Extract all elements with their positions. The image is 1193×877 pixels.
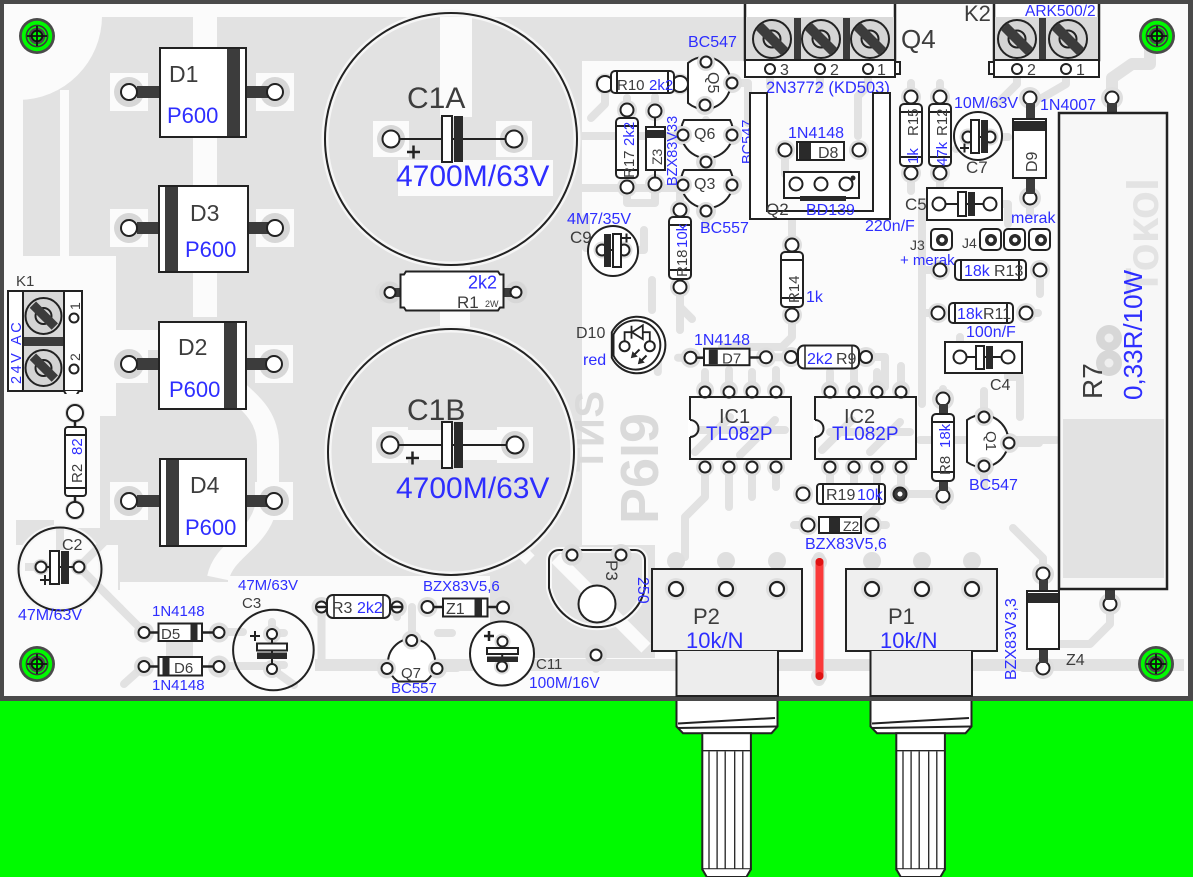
potentiometer P1 shaft <box>871 651 973 877</box>
white region right of C1A <box>440 17 472 122</box>
wire trace D5 D6 right <box>272 633 452 665</box>
copper band top middle <box>582 17 748 61</box>
capacitor C3 <box>233 577 314 690</box>
mounting hole top-left <box>19 18 55 54</box>
white region R3 Z1 row <box>228 576 490 656</box>
wire trace R15 R12 tops <box>911 83 940 97</box>
svg-text:R10: R10 <box>617 77 645 94</box>
svg-text:Q1: Q1 <box>982 431 999 451</box>
wire trace IC2 pins up <box>830 366 901 390</box>
potentiometer P2 shaft <box>677 651 779 877</box>
wire trace Q7 area <box>437 664 457 672</box>
wire trace D9 <box>1026 198 1034 214</box>
capacitor C9 <box>567 211 638 276</box>
wire trace R8 <box>939 389 947 506</box>
red jumper wire <box>816 558 824 680</box>
svg-text:R11: R11 <box>983 306 1011 323</box>
resistor R10 <box>597 71 688 94</box>
terminal block K2 <box>964 1 1099 79</box>
diode D3 <box>110 186 294 272</box>
white clearance top-left corner <box>16 16 102 100</box>
wire trace Q1 <box>984 391 1039 486</box>
copper pour left region <box>16 17 582 545</box>
svg-text:BC557: BC557 <box>700 220 749 237</box>
capacitor C1A outline <box>325 13 577 265</box>
svg-text:220n/F: 220n/F <box>865 218 915 235</box>
svg-text:1: 1 <box>67 302 83 310</box>
svg-text:10k/N: 10k/N <box>880 628 937 653</box>
svg-text:Q2: Q2 <box>766 200 789 219</box>
wire trace red jumper underlay <box>813 558 825 680</box>
svg-text:D4: D4 <box>190 472 220 498</box>
diode D7 <box>685 332 773 368</box>
resistor R11 <box>932 303 1033 323</box>
svg-text:BC547: BC547 <box>969 477 1018 494</box>
wire trace R18 <box>680 194 692 319</box>
svg-text:K1: K1 <box>16 273 34 290</box>
white region bottom-left corner <box>6 630 110 696</box>
svg-text:J4: J4 <box>962 235 977 251</box>
diode D2 <box>110 322 293 409</box>
svg-text:BZX83V3,3: BZX83V3,3 <box>1003 598 1020 680</box>
resistor R1 <box>379 272 527 313</box>
capacitor C5 <box>865 188 1002 235</box>
white channel along left below K1 <box>6 400 56 520</box>
transistor Q5 <box>688 53 741 114</box>
svg-text:Z2: Z2 <box>843 518 860 534</box>
wire trace D7 R9 <box>678 357 885 387</box>
resistor R9 <box>785 346 872 369</box>
diode D1 <box>110 48 294 137</box>
resistor R3 <box>315 595 403 618</box>
terminal block Q4 <box>745 2 936 97</box>
zener Z2 <box>802 517 887 553</box>
svg-text:10M/63V: 10M/63V <box>954 95 1018 112</box>
svg-text:BD139: BD139 <box>806 202 855 219</box>
zener Z1 <box>422 578 510 618</box>
svg-text:TL082P: TL082P <box>832 424 899 445</box>
svg-text:2N3772 (KD503): 2N3772 (KD503) <box>766 79 890 97</box>
copper trace network <box>29 50 1150 685</box>
wire trace Q4 to D8 <box>785 96 858 184</box>
diode D5 <box>139 603 225 643</box>
svg-text:Z3: Z3 <box>649 148 665 165</box>
white region around D5 D6 <box>120 582 232 696</box>
svg-text:2k2: 2k2 <box>807 351 833 368</box>
svg-text:BZX83V5,6: BZX83V5,6 <box>805 536 887 553</box>
svg-text:100n/F: 100n/F <box>966 324 1016 341</box>
svg-text:R14: R14 <box>786 275 803 303</box>
wire trace C7 pads <box>956 137 1008 149</box>
heatsink bracket around Q2 <box>750 93 890 219</box>
svg-text:C4: C4 <box>990 377 1011 394</box>
svg-text:P600: P600 <box>185 515 236 540</box>
svg-text:C2: C2 <box>62 537 83 554</box>
diode D4 <box>110 459 293 546</box>
capacitor C1A symbol <box>373 116 532 162</box>
wire trace R17 Z3 tops <box>627 97 655 111</box>
IC U1 IC1 <box>688 387 791 473</box>
svg-text:1N4148: 1N4148 <box>152 603 205 620</box>
wire trace R7 bottom to Z4 <box>1060 604 1110 644</box>
svg-text:47M/63V: 47M/63V <box>18 607 82 624</box>
svg-text:C3: C3 <box>242 595 261 612</box>
svg-text:2: 2 <box>1027 62 1036 79</box>
diode D6 <box>139 657 225 694</box>
zener Z4 <box>1003 568 1085 681</box>
capacitor C4 <box>945 342 1022 394</box>
svg-text:2: 2 <box>830 62 839 79</box>
capacitor C11 <box>470 622 600 693</box>
svg-text:1N4148: 1N4148 <box>694 332 750 349</box>
svg-text:10k: 10k <box>857 487 884 504</box>
svg-text:1k: 1k <box>905 148 922 164</box>
svg-text:P3: P3 <box>602 560 621 581</box>
svg-text:Z1: Z1 <box>446 601 465 618</box>
copper pour P3 zone <box>488 545 655 658</box>
svg-text:10k: 10k <box>674 223 691 248</box>
wire trace Q1 horizontal <box>920 436 1056 444</box>
svg-text:C7: C7 <box>966 158 988 177</box>
svg-text:R8: R8 <box>937 456 954 475</box>
terminal block K1 <box>8 273 83 396</box>
svg-text:2k2: 2k2 <box>468 273 497 293</box>
svg-text:P600: P600 <box>169 377 220 402</box>
wire trace R19 to R8 <box>900 490 938 498</box>
svg-text:R2: R2 <box>69 464 86 483</box>
svg-text:82: 82 <box>69 438 86 455</box>
svg-text:D6: D6 <box>174 660 193 677</box>
wire trace R14 <box>722 217 792 347</box>
svg-text:P2: P2 <box>693 604 720 629</box>
wire trace C1A to Q3 <box>560 184 683 192</box>
svg-text:D9: D9 <box>1024 151 1041 172</box>
capacitor C2 <box>18 528 114 625</box>
IC U2 IC2 <box>813 387 916 473</box>
power resistor R7 <box>1059 92 1168 611</box>
svg-text:1N4148: 1N4148 <box>152 677 205 694</box>
potentiometer P1 <box>846 569 997 653</box>
svg-text:3: 3 <box>780 62 789 79</box>
svg-text:C1A: C1A <box>407 82 465 115</box>
white channel through R1 <box>440 262 470 330</box>
svg-text:2k2: 2k2 <box>357 600 383 617</box>
transistor Q6 <box>674 120 741 171</box>
LED D10 <box>576 317 665 374</box>
jumper pad J3 <box>900 229 955 269</box>
svg-text:BZX83V5,6: BZX83V5,6 <box>423 578 500 595</box>
potentiometer P3 <box>549 545 651 666</box>
svg-text:100M/16V: 100M/16V <box>529 675 600 692</box>
svg-text:Q3: Q3 <box>694 176 715 193</box>
transistor Q1 <box>967 408 1018 494</box>
wire trace D10 <box>650 280 680 372</box>
svg-text:2k2: 2k2 <box>621 122 638 146</box>
svg-text:P1: P1 <box>888 604 915 629</box>
svg-text:R18: R18 <box>674 249 691 277</box>
svg-text:D3: D3 <box>190 200 219 226</box>
wire trace P3 bottom pad <box>592 655 600 669</box>
white region around K1 <box>6 256 116 416</box>
svg-text:R19: R19 <box>826 487 855 504</box>
svg-text:BC557: BC557 <box>391 680 437 697</box>
diode D8 <box>779 125 866 162</box>
mounting hole bottom-right <box>1138 646 1174 682</box>
wire trace through IC2 body <box>822 420 910 452</box>
svg-text:Q6: Q6 <box>694 126 715 143</box>
wire trace Q5 right pad <box>732 83 748 123</box>
svg-text:10k/N: 10k/N <box>686 628 743 653</box>
svg-text:18k: 18k <box>937 423 954 448</box>
svg-text:47k: 47k <box>934 141 951 166</box>
wire trace C2 pads <box>29 522 124 608</box>
svg-text:1N4148: 1N4148 <box>788 125 844 142</box>
resistor R2 <box>54 394 100 528</box>
potentiometer P2 <box>652 569 802 653</box>
svg-text:4700M/63V: 4700M/63V <box>396 472 549 505</box>
wire trace K2 stubs <box>997 74 1066 104</box>
wire trace bottom right <box>1023 664 1043 672</box>
copper band bottom horizontal trace <box>315 659 1184 671</box>
svg-text:24V AC: 24V AC <box>9 320 25 384</box>
wire trace IC2 pins down <box>830 467 901 522</box>
svg-text:merak: merak <box>1011 210 1056 227</box>
wire trace R7 top pad <box>1112 50 1150 98</box>
svg-text:ARK500/2: ARK500/2 <box>1025 3 1096 20</box>
svg-text:R1: R1 <box>457 293 479 312</box>
pad halos (copper annulus under pads) <box>33 52 1123 684</box>
svg-text:2W: 2W <box>485 299 499 309</box>
wire trace C4 <box>960 337 1020 417</box>
board border frame <box>0 0 1193 701</box>
svg-text:4M7/35V: 4M7/35V <box>567 211 631 228</box>
svg-text:Q4: Q4 <box>901 24 936 54</box>
transistor Q7 <box>378 632 446 698</box>
svg-text:Q5: Q5 <box>704 72 721 93</box>
wire trace R3 to Q7 <box>322 607 413 662</box>
svg-text:TL082P: TL082P <box>706 424 773 445</box>
wire trace C5 left down <box>922 204 1008 404</box>
svg-text:Z4: Z4 <box>1066 652 1085 669</box>
svg-text:BZX83V33: BZX83V33 <box>665 116 681 186</box>
white channel diagonal toward P3 <box>500 530 530 560</box>
wire trace C1A to Q6 <box>560 132 683 140</box>
resistor R19 <box>797 484 907 504</box>
resistor R14 <box>781 239 824 322</box>
diode D9 <box>1013 92 1096 205</box>
svg-text:R17: R17 <box>621 150 638 178</box>
resistor R15 <box>900 91 922 180</box>
svg-text:D2: D2 <box>178 334 207 360</box>
svg-text:18k: 18k <box>957 306 984 323</box>
svg-text:P600: P600 <box>167 103 218 128</box>
transistor Q2 BD139 <box>766 172 859 219</box>
svg-text:D10: D10 <box>576 325 605 342</box>
zener Z3 <box>646 105 665 191</box>
capacitor C1B outline <box>328 329 574 575</box>
resistor R18 <box>669 204 691 294</box>
mounting hole top-right <box>1139 18 1175 54</box>
capacitor C7 <box>954 95 1018 177</box>
svg-text:+ merak: + merak <box>900 252 955 269</box>
wire trace C11 <box>502 629 525 672</box>
white channel from K1 to D2 <box>82 330 200 350</box>
wire trace P1 pads up <box>872 561 972 589</box>
svg-text:D5: D5 <box>161 626 180 643</box>
wire trace D5 D6 area <box>120 608 272 684</box>
svg-text:1N4007: 1N4007 <box>1040 97 1096 114</box>
white channel vertical between diodes and C1A <box>193 17 217 317</box>
svg-text:18k: 18k <box>964 263 991 280</box>
wire trace R13 R11 <box>922 270 1040 313</box>
svg-text:J3: J3 <box>910 237 925 253</box>
svg-text:red: red <box>583 352 606 369</box>
svg-text:C11: C11 <box>536 656 562 673</box>
svg-text:R15: R15 <box>905 108 922 136</box>
svg-text:P600: P600 <box>185 237 236 262</box>
svg-text:K2: K2 <box>964 1 991 26</box>
svg-text:R12: R12 <box>934 108 951 136</box>
wire trace R10 left down <box>591 84 605 118</box>
svg-text:1: 1 <box>877 62 886 79</box>
wire trace through IC1 body <box>695 417 785 455</box>
svg-text:250: 250 <box>634 577 651 604</box>
white channel corner to K1 <box>60 90 69 260</box>
jumper pads J4 <box>962 210 1056 251</box>
svg-text:R9: R9 <box>836 351 857 368</box>
white channel snake between diodes <box>205 325 268 578</box>
svg-text:D7: D7 <box>722 351 741 368</box>
capacitor C1B symbol <box>372 422 533 468</box>
wire trace R10 right to Q5 <box>680 80 706 88</box>
resistor R17 <box>616 104 638 194</box>
wire trace P2 pads up <box>676 561 777 589</box>
svg-text:D8: D8 <box>818 145 839 162</box>
transistor Q3 <box>674 170 741 220</box>
svg-text:D1: D1 <box>169 61 198 87</box>
svg-text:R7: R7 <box>1077 363 1108 399</box>
wire trace Z4 top <box>1013 528 1043 574</box>
wire trace C3 <box>272 622 294 685</box>
wire trace R17 Z3 bottoms <box>627 184 655 203</box>
svg-text:1k: 1k <box>806 289 824 306</box>
svg-text:0,33R/10W: 0,33R/10W <box>1118 269 1148 400</box>
resistor R13 <box>934 260 1047 280</box>
PCB board base <box>0 0 1193 701</box>
svg-text:BC547: BC547 <box>688 34 737 51</box>
wire trace Z2 <box>794 521 886 529</box>
svg-text:47M/63V: 47M/63V <box>238 577 298 594</box>
svg-text:2: 2 <box>67 353 83 361</box>
resistor R8 <box>932 393 954 503</box>
resistor R12 <box>929 91 951 180</box>
svg-text:C9: C9 <box>570 228 592 247</box>
svg-text:Ρ6Ι9: Ρ6Ι9 <box>610 413 670 524</box>
svg-text:4700M/63V: 4700M/63V <box>396 160 549 193</box>
mounting hole bottom-left <box>19 646 55 682</box>
svg-text:2k2: 2k2 <box>649 77 673 94</box>
svg-text:C1B: C1B <box>407 394 465 427</box>
wire trace R15 R12 bottoms <box>911 173 940 191</box>
svg-text:C5: C5 <box>905 195 927 214</box>
wire trace Q4 pad stubs <box>770 74 868 96</box>
svg-text:R3: R3 <box>332 600 353 617</box>
svg-text:1: 1 <box>1076 62 1085 79</box>
svg-text:R13: R13 <box>994 263 1023 280</box>
wire trace IC1 pins down <box>685 467 776 557</box>
wire trace C9 pads <box>586 218 644 250</box>
wire trace Q5 column <box>702 62 710 225</box>
wire trace IC1 pins up <box>705 370 776 390</box>
